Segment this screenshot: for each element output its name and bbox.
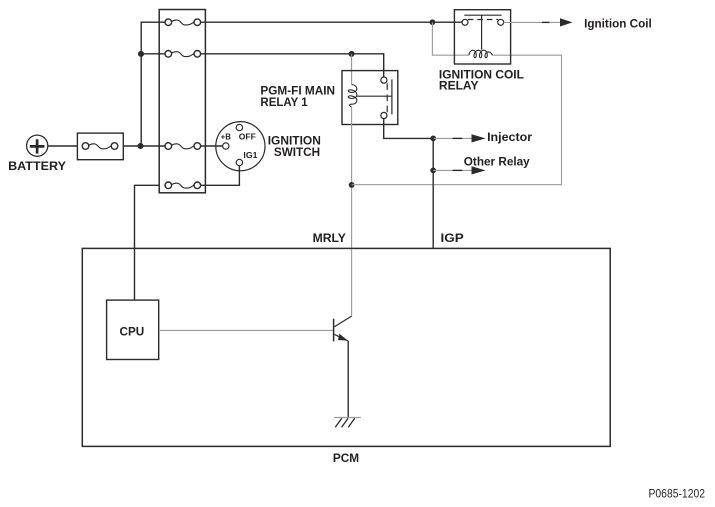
fuse row4: [165, 182, 201, 189]
wire battery to fuse: [48, 145, 78, 147]
ignition coil relay coil: [469, 50, 493, 58]
node: battery junction dot: [137, 143, 143, 149]
PGM-FI relay armature bar: [391, 79, 393, 114]
PGM-FI relay armature link: [356, 95, 392, 97]
svg-text:MRLY: MRLY: [313, 231, 346, 245]
PGM-FI relay top contact: [381, 77, 387, 83]
ignition coil relay armature stem: [481, 15, 483, 50]
fuse row1: [165, 19, 201, 26]
PGM-FI main relay 1 box: [342, 71, 398, 125]
wire fuse to junction node: [123, 145, 165, 147]
ignition switch terminal IG1: [236, 159, 242, 165]
wire IGP vertical: [432, 138, 434, 248]
svg-text:Ignition Coil: Ignition Coil: [584, 16, 652, 30]
ignition switch body circle: [216, 122, 265, 171]
PGM-FI relay bottom contact: [381, 112, 387, 118]
svg-text:RELAY 1: RELAY 1: [260, 95, 307, 109]
wire CPU to transistor base (gray): [159, 329, 334, 331]
arrow to other relay: [472, 166, 486, 174]
ignition coil relay box: [454, 10, 510, 64]
node: dot feeding ignition coil relay coil: [430, 19, 436, 25]
wire vertical bus left of fuse box: [141, 22, 165, 146]
transistor emitter arrowhead: [338, 334, 348, 341]
svg-text:+B: +B: [221, 131, 231, 141]
ignition switch terminal +B: [223, 143, 229, 149]
svg-text:BATTERY: BATTERY: [8, 159, 66, 173]
fuse row2: [165, 51, 201, 58]
transistor (PCM output) base bar: [333, 319, 335, 342]
CPU box: [107, 300, 159, 359]
ignition coil relay top bar: [464, 14, 501, 16]
svg-text:OFF: OFF: [239, 132, 256, 142]
wire dot to relay coil top: [351, 54, 353, 85]
svg-text:RELAY: RELAY: [439, 79, 479, 93]
PCM box: [82, 248, 610, 446]
wire fuse row4 to CPU: [135, 185, 160, 300]
wire IG1 to fuse row4: [200, 166, 239, 186]
wire row3 to ignition switch +B: [200, 145, 222, 147]
ground symbol: [334, 418, 361, 428]
PGM-FI relay dashed contact line: [386, 83, 388, 112]
wire bus to fuse row2: [141, 53, 165, 55]
PGM-FI relay coil: [348, 85, 357, 108]
svg-text:P0685-1202: P0685-1202: [649, 487, 706, 501]
transistor collector lead: [334, 316, 351, 327]
wire PGM-FI coil to MRLY (gray): [351, 107, 353, 316]
fuse row3: [165, 143, 201, 150]
wire to other relay arrow (gray with black dash): [433, 169, 471, 171]
ignition coil relay dashed contact line: [468, 19, 498, 21]
svg-text:SWITCH: SWITCH: [274, 145, 320, 159]
svg-text:Other Relay: Other Relay: [464, 155, 530, 169]
ignition switch terminal OFF: [236, 124, 242, 130]
node: injector dot: [430, 136, 436, 142]
ignition coil relay right contact: [498, 19, 504, 25]
wire dot to ignition coil relay coil left (gray): [432, 22, 469, 55]
svg-text:IGP: IGP: [441, 231, 464, 245]
ignition coil relay left contact: [462, 19, 468, 25]
wire relay to ignition coil arrow (gray with black dash): [504, 21, 560, 23]
arrow to ignition coil: [560, 18, 573, 26]
node: MRLY branch dot: [349, 182, 355, 188]
wire MRLY branch to ignition coil relay coil (gray): [352, 55, 562, 185]
svg-text:Injector: Injector: [487, 130, 532, 144]
wire row2 to PGM-FI relay top contact: [200, 54, 383, 77]
transistor emitter lead: [334, 334, 348, 341]
arrow to injector: [472, 134, 486, 142]
battery positive terminal symbol: [27, 135, 48, 156]
fuse box (fuse/relay block): [159, 10, 205, 193]
svg-text:CPU: CPU: [120, 324, 145, 338]
wire to injector arrow (gray with black dash): [433, 137, 471, 139]
wire row1 to ignition coil relay: [200, 21, 462, 23]
fuse (battery feed) box: [77, 133, 123, 160]
svg-text:IG1: IG1: [243, 150, 257, 160]
svg-text:PCM: PCM: [333, 451, 359, 465]
wire PGM-FI bottom contact to injector node: [384, 118, 434, 138]
node: other relay dot: [430, 168, 436, 174]
wire emitter to ground: [347, 341, 349, 418]
fuse (battery feed) element: [82, 143, 118, 150]
node: dot branch to PGM-FI relay coil: [349, 51, 355, 57]
node: row2 junction dot: [138, 51, 144, 57]
